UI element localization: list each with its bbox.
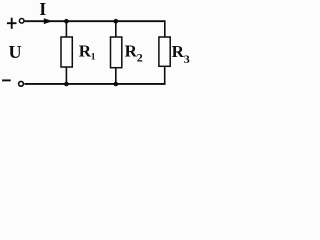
- svg-text:2: 2: [137, 51, 143, 65]
- svg-text:U: U: [9, 42, 22, 62]
- svg-text:3: 3: [184, 52, 190, 66]
- svg-text:1: 1: [91, 52, 96, 62]
- svg-text:R: R: [125, 42, 138, 61]
- svg-text:R: R: [79, 42, 92, 61]
- svg-text:I: I: [39, 0, 46, 19]
- svg-text:R: R: [172, 42, 185, 61]
